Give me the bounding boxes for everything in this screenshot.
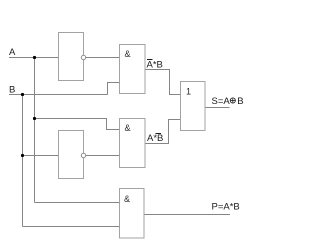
svg-text:&: & xyxy=(125,123,131,133)
output label S=A xor B xyxy=(212,96,244,107)
junction dot A to gate2 xyxy=(33,117,36,120)
svg-text:A*B: A*B xyxy=(147,133,163,144)
inverter U2 bubble xyxy=(81,153,85,157)
junction dot B to inverter U2 xyxy=(21,154,24,157)
svg-text:B: B xyxy=(237,96,243,107)
junction dot A on wire A xyxy=(33,56,36,59)
wire gate2 output to OR bottom input xyxy=(145,120,181,144)
wire B horizontal xyxy=(9,94,108,96)
wire U2 output to gate2 xyxy=(86,155,121,157)
svg-text:P=A*B: P=A*B xyxy=(212,202,240,213)
OR gate U5 box xyxy=(181,82,206,131)
svg-text:B: B xyxy=(9,85,15,96)
wire U1 output to gate1 xyxy=(86,57,121,59)
junction dot B on wire B xyxy=(21,93,24,96)
svg-text:A*B: A*B xyxy=(147,60,163,71)
svg-text:&: & xyxy=(124,194,130,204)
wire S output xyxy=(205,107,230,109)
wire A to gate3 top input xyxy=(35,202,121,204)
wire A horizontal xyxy=(9,57,58,59)
wire B to gate3 bottom input xyxy=(23,226,121,228)
inverter U1 box xyxy=(59,33,84,81)
AND gate U3 box xyxy=(120,45,146,94)
wire B vertical xyxy=(22,95,24,227)
svg-text:1: 1 xyxy=(186,87,191,97)
wire A vertical xyxy=(34,58,36,203)
inverter U1 bubble xyxy=(81,55,85,59)
AND gate U6 box xyxy=(120,189,145,239)
svg-text:&: & xyxy=(125,49,131,59)
svg-text:A: A xyxy=(9,47,16,58)
wire P output xyxy=(145,214,231,216)
inverter U2 box xyxy=(59,131,84,179)
node label A-bar*B xyxy=(147,60,163,71)
node label A*B-bar xyxy=(147,133,163,144)
AND gate U4 box xyxy=(120,119,146,168)
wire gate1 output to OR top input xyxy=(145,70,181,95)
wire A to gate2 top input xyxy=(35,119,121,130)
svg-text:S=A: S=A xyxy=(212,96,231,107)
wire B to inverter U2 xyxy=(23,155,59,157)
wire B step up to gate1 xyxy=(108,83,121,95)
